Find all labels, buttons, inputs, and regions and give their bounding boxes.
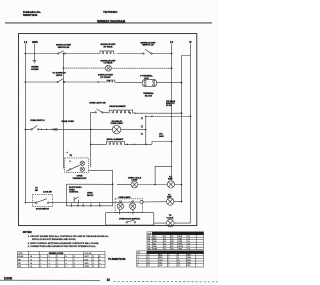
svg-text:BROIL ELEMENT: BROIL ELEMENT <box>107 139 124 141</box>
svg-text:18: 18 <box>164 241 166 243</box>
wire gang drop from top switch <box>62 54 64 69</box>
svg-text:P3: P3 <box>178 260 180 262</box>
svg-text:1: 1 <box>66 260 67 262</box>
switch surface unit right front top <box>143 53 144 54</box>
header model number text <box>103 10 118 14</box>
label oven control 3 lines <box>69 187 82 194</box>
svg-text:5: 5 <box>168 255 169 257</box>
wire gang drop lower <box>63 68 64 168</box>
label door lamps <box>119 200 135 203</box>
label relay <box>87 193 94 197</box>
svg-text:WIRE COLOR CODE: WIRE COLOR CODE <box>167 233 188 235</box>
lamp clock light <box>167 181 174 188</box>
svg-text:BLUE: BLUE <box>179 246 183 248</box>
svg-text:120V: 120V <box>167 197 172 199</box>
svg-text:18: 18 <box>188 248 190 250</box>
junction L1 top <box>25 53 27 55</box>
junction drop to indicator rail <box>63 67 64 68</box>
switch inside bottom box <box>126 222 128 224</box>
svg-text:2: 2 <box>74 266 75 268</box>
label surface unit RT front <box>98 74 114 79</box>
junction indicator vertical <box>112 184 114 186</box>
svg-text:4: 4 <box>90 204 91 207</box>
svg-text:OVEN LIGHT: OVEN LIGHT <box>111 123 124 125</box>
junction indicator N branch <box>181 184 183 186</box>
diagram border frame <box>19 34 197 226</box>
connector circle on bottom rail <box>140 200 143 203</box>
svg-text:OVEN LIGHT SW: OVEN LIGHT SW <box>89 103 105 105</box>
lamp oven indicator <box>131 181 138 188</box>
svg-text:2: 2 <box>93 260 94 262</box>
svg-text:3: 3 <box>57 266 58 268</box>
label surface indicator <box>100 59 116 64</box>
svg-text:1: 1 <box>66 266 67 268</box>
wire N vertical bus <box>189 44 191 223</box>
relay component on wire <box>74 197 78 203</box>
svg-text:DOOR SWITCH: DOOR SWITCH <box>36 208 50 210</box>
svg-text:YEL: YEL <box>153 243 156 245</box>
wire to clock lamp bottom <box>154 222 191 224</box>
label oven sensor <box>159 134 164 138</box>
svg-text:SWITCH LR: SWITCH LR <box>142 45 154 47</box>
wire inverted U link <box>155 166 172 184</box>
label bake feed <box>166 100 176 107</box>
svg-text:3: 3 <box>138 260 139 262</box>
svg-text:YEL: YEL <box>159 263 162 265</box>
footer fold dashed line right <box>114 281 219 283</box>
svg-text:RT FRONT: RT FRONT <box>100 77 111 79</box>
junction U left leg <box>154 184 156 186</box>
svg-text:CLOCK: CLOCK <box>167 217 174 219</box>
svg-text:TD-5995271649: TD-5995271649 <box>108 258 126 261</box>
title block upper table <box>147 232 204 250</box>
svg-text:6: 6 <box>168 257 169 259</box>
svg-text:1: 1 <box>93 263 94 265</box>
svg-text:1: 1 <box>71 205 72 207</box>
svg-text:SCREW: SCREW <box>31 69 39 71</box>
wire L2 vertical bus <box>171 44 173 167</box>
svg-text:WHT: WHT <box>187 255 191 257</box>
svg-text:2: 2 <box>99 266 100 268</box>
svg-text:1: 1 <box>40 263 41 265</box>
wire bottom rail y202.7 <box>25 202 181 203</box>
wire indicator rail y68.1 <box>63 67 171 69</box>
label clock light <box>168 176 173 180</box>
wire connector vertical x145.8 <box>145 116 147 144</box>
resistor broil element <box>105 142 126 145</box>
svg-text:1: 1 <box>49 266 50 268</box>
svg-text:12: 12 <box>30 260 32 262</box>
svg-text:WIRING CODE: WIRING CODE <box>49 253 64 255</box>
junction lamp rail dots <box>41 129 42 130</box>
svg-text:TB75848C: TB75848C <box>103 10 118 14</box>
junction L2 indicator <box>171 67 173 69</box>
wire surface rail y82 <box>25 81 181 84</box>
svg-text:BLK: BLK <box>85 260 90 262</box>
svg-text:GND: GND <box>32 40 38 44</box>
switch oven selector <box>31 129 32 130</box>
label terminal block <box>143 92 154 97</box>
svg-text:TERMINAL CODE: TERMINAL CODE <box>167 251 184 254</box>
svg-text:L1: L1 <box>148 255 150 257</box>
svg-text:RED: RED <box>85 263 90 265</box>
junction surface rail mid <box>98 81 99 82</box>
svg-text:ORN: ORN <box>85 266 90 268</box>
wire bake parallel stub to N <box>146 115 191 117</box>
svg-text:COLOR: COLOR <box>85 253 92 255</box>
resistor bake element <box>108 110 134 113</box>
switch surface unit LF <box>57 81 58 82</box>
svg-text:NOTES:: NOTES: <box>23 231 33 234</box>
svg-text:120V: 120V <box>168 179 173 181</box>
svg-text:SWITCH RR: SWITCH RR <box>58 47 70 49</box>
svg-text:18: 18 <box>164 246 166 248</box>
svg-text:RELAY: RELAY <box>87 194 94 197</box>
svg-text:18: 18 <box>30 256 32 258</box>
svg-text:8: 8 <box>99 256 100 258</box>
junction N branch surface rail <box>181 82 183 84</box>
lamp clock bottom <box>167 219 175 227</box>
label surface element RR <box>100 43 116 48</box>
scan noise overlay <box>0 0 218 285</box>
svg-text:5: 5 <box>138 265 139 267</box>
label thermostat pins <box>70 155 73 171</box>
lamp oven indicator right <box>166 198 173 205</box>
junction bottom rail N branch <box>181 201 183 203</box>
svg-text:18: 18 <box>188 238 190 240</box>
svg-text:SYM: SYM <box>18 253 23 255</box>
wire broil rail y144.3 <box>91 143 152 145</box>
svg-text:16: 16 <box>188 246 190 248</box>
svg-text:OVEN DOOR SWITCH: OVEN DOOR SWITCH <box>119 218 141 220</box>
wire lamp stubs <box>119 202 133 214</box>
thermostat contact upper <box>80 161 84 165</box>
svg-text:BL: BL <box>171 246 173 248</box>
junction lamp rail to connector <box>145 129 146 130</box>
svg-text:LT REAR: LT REAR <box>104 62 113 65</box>
label to surface units <box>52 72 66 77</box>
svg-text:12: 12 <box>164 248 166 250</box>
svg-text:1: 1 <box>138 255 139 257</box>
legend table <box>17 251 105 267</box>
svg-text:LIGHT: LIGHT <box>131 180 138 182</box>
svg-text:WITH LOCKS NOT ENGAGED AND DOO: WITH LOCKS NOT ENGAGED AND DOOR. <box>32 238 76 241</box>
svg-text:5995271649: 5995271649 <box>23 13 38 17</box>
svg-text:1: 1 <box>74 263 75 265</box>
svg-text:12 GA: 12 GA <box>166 104 172 107</box>
label surface unit switch RR <box>56 44 72 49</box>
svg-text:P5: P5 <box>148 265 150 267</box>
label door switch top <box>35 188 39 192</box>
svg-text:N: N <box>189 40 191 44</box>
svg-text:BAKE ELEMENT: BAKE ELEMENT <box>109 105 126 108</box>
label surface unit switch RF <box>140 41 156 46</box>
svg-text:16: 16 <box>30 266 32 268</box>
note line 1 <box>28 235 110 248</box>
connector pair on lamp rail <box>54 129 56 131</box>
svg-text:3: 3 <box>49 263 50 265</box>
svg-text:P2: P2 <box>148 263 150 265</box>
svg-text:2: 2 <box>40 260 41 262</box>
junction bake rail dots <box>130 112 131 113</box>
label indicator right <box>167 194 172 198</box>
lamp oven light <box>112 125 120 133</box>
svg-text:1: 1 <box>57 263 58 265</box>
svg-text:1: 1 <box>40 256 41 258</box>
svg-text:BLOCK: BLOCK <box>145 96 153 98</box>
switch door contacts <box>35 202 37 204</box>
svg-text:OVEN LAMPS: OVEN LAMPS <box>119 196 132 199</box>
ground label GREEN SCREW <box>31 66 39 71</box>
junction L1 corner bottom <box>25 202 26 203</box>
svg-text:UNITS: UNITS <box>56 75 63 77</box>
svg-text:2: 2 <box>57 260 58 262</box>
title WIRING DIAGRAM <box>97 19 125 23</box>
junction branch lamp rail <box>90 129 92 131</box>
wire L1 vertical bus <box>24 44 26 203</box>
switch blade thermostat <box>66 165 79 171</box>
svg-text:2: 2 <box>40 266 41 268</box>
svg-text:240V: 240V <box>159 135 164 138</box>
svg-text:L2: L2 <box>170 40 174 44</box>
svg-text:P6: P6 <box>178 265 180 267</box>
switch oven light <box>95 112 96 113</box>
wire GND drop <box>34 44 36 61</box>
svg-text:2. WITH CONTROL SETTINGS ADVA: 2. WITH CONTROL SETTINGS ADVANCED CONTAC… <box>28 242 99 245</box>
svg-text:YL: YL <box>148 243 150 245</box>
svg-text:L1: L1 <box>24 40 28 44</box>
svg-text:5: 5 <box>99 205 100 207</box>
header rule <box>5 22 212 24</box>
svg-text:16: 16 <box>188 236 190 238</box>
resistor surface element RR <box>99 51 115 54</box>
junction L2 top <box>171 53 173 55</box>
junction L1 lamp rail <box>25 129 27 131</box>
svg-text:16: 16 <box>164 243 166 245</box>
wire N inner branch <box>182 56 191 203</box>
wire indicator rail y184.4 <box>66 183 181 185</box>
wire top rail y53.5 <box>25 53 171 55</box>
svg-text:7: 7 <box>168 260 169 262</box>
thermostat contact lower <box>80 167 84 171</box>
label above terminal block <box>140 75 153 80</box>
label oven indicator <box>128 177 142 181</box>
oven door lamps dashed box <box>115 199 143 213</box>
svg-text:P1: P1 <box>148 260 150 262</box>
svg-text:2: 2 <box>93 266 94 268</box>
lamp door 1 <box>117 203 123 209</box>
svg-text:2: 2 <box>49 256 50 258</box>
wire oven lamp rail y129.4 <box>25 128 145 130</box>
wire broil jog to L2 <box>152 142 172 145</box>
svg-text:CONTROL: CONTROL <box>69 192 79 194</box>
svg-text:12: 12 <box>164 238 166 240</box>
svg-text:1: 1 <box>93 256 94 258</box>
footer fold dashed line left <box>0 279 100 281</box>
svg-text:OVEN SWITCH: OVEN SWITCH <box>30 120 45 122</box>
oven door switch dashed box <box>33 194 53 206</box>
title block lower table <box>137 251 204 267</box>
svg-text:1: 1 <box>74 260 75 262</box>
svg-text:2: 2 <box>78 205 79 207</box>
switch surface unit right rear <box>58 53 59 54</box>
junction cluster top <box>67 152 68 153</box>
wire oven branch vertical x90.7 <box>90 112 92 167</box>
terminal ticks below wire <box>72 203 100 205</box>
svg-text:6: 6 <box>99 263 100 265</box>
label oven light <box>111 120 124 125</box>
terminal block 4 pins <box>142 79 156 86</box>
legend cells text <box>18 253 101 268</box>
header publication number text <box>23 10 41 17</box>
svg-text:WHT: WHT <box>179 236 183 238</box>
oven control box <box>66 184 112 206</box>
junction broil dots <box>127 144 128 145</box>
svg-text:1. CIRCUIT SHOWN WITH ALL CON: 1. CIRCUIT SHOWN WITH ALL CONTROLS OFF A… <box>28 235 110 238</box>
wire bake rail y112.4 <box>91 111 182 114</box>
svg-text:2: 2 <box>74 256 75 258</box>
ground symbol <box>33 61 37 64</box>
junction broil start <box>90 144 92 146</box>
svg-text:L2: L2 <box>148 257 150 259</box>
svg-text:W-BK: W-BK <box>18 256 24 258</box>
svg-text:1: 1 <box>49 260 50 262</box>
svg-text:THERMOSTAT: THERMOSTAT <box>73 177 88 180</box>
svg-text:1: 1 <box>57 256 58 258</box>
oven door switch box bottom <box>106 213 154 225</box>
wire cluster output to indicator <box>89 170 113 202</box>
svg-text:8: 8 <box>168 263 169 265</box>
connector pins column <box>141 117 143 119</box>
svg-text:3. CONNECTORS ARE SHOWN IN TH: 3. CONNECTORS ARE SHOWN IN THE CIRCUIT O… <box>28 245 97 248</box>
svg-text:RT REAR: RT REAR <box>103 46 113 49</box>
svg-text:2: 2 <box>138 257 139 259</box>
svg-text:LOCK SW: LOCK SW <box>43 192 52 194</box>
svg-text:10: 10 <box>107 278 111 282</box>
label clock bottom <box>167 215 174 219</box>
junction L1 surface rail <box>25 81 27 83</box>
svg-text:18: 18 <box>188 243 190 245</box>
svg-text:2: 2 <box>66 263 67 265</box>
svg-text:9: 9 <box>168 265 169 267</box>
resistor surface element small <box>106 80 116 83</box>
label oven thermostat <box>73 176 88 180</box>
svg-text:3: 3 <box>83 205 84 207</box>
lamp surface indicator light <box>106 65 112 71</box>
lamp door 2 <box>129 203 135 209</box>
thermostat cluster dashed box <box>65 158 89 172</box>
